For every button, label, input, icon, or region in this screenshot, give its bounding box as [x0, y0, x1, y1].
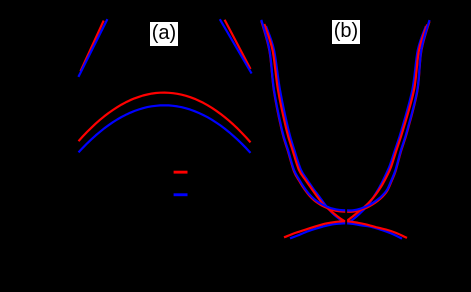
panel (b) valence band blue: [290, 223, 402, 238]
panel (a) valence band red: [79, 93, 251, 143]
panel (a) upper band, blue branch left: [78, 19, 107, 77]
panel (a) upper band, blue branch right: [220, 19, 252, 73]
panel (b) valence band red: [284, 221, 407, 238]
panel (b) lower blue V band: [266, 26, 426, 223]
panel (a) upper band, red branch right: [225, 20, 251, 69]
panel (b) upper red U band: [261, 21, 429, 212]
panel (b) upper blue U band: [261, 20, 429, 211]
label (a): [150, 22, 178, 46]
label (b): [332, 20, 360, 44]
panel (a) upper band, red branch left: [81, 21, 104, 72]
panel (a) valence band blue: [79, 105, 251, 153]
black gap marker line at K point: [345, 204, 347, 228]
panel (b) lower red V band: [264, 24, 427, 221]
legend blue dash: [174, 193, 188, 196]
legend red dash: [174, 171, 188, 174]
